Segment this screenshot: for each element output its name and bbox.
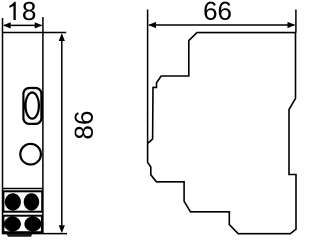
- front view outline: [3, 33, 43, 234]
- arrowhead 86 down: [59, 225, 65, 233]
- button recess rounded rect: [23, 88, 41, 124]
- terminal row 1 left screw: [5, 193, 21, 210]
- dimension line 66: [149, 24, 295, 26]
- extension line right of 18: [42, 17, 44, 33]
- indicator circle: [20, 144, 41, 165]
- arrowhead 66 right: [288, 22, 296, 28]
- arrowhead 18 right: [35, 22, 43, 28]
- terminal row 2 right screw: [24, 217, 41, 232]
- dimension line 86: [61, 35, 63, 232]
- dimension text 66: [204, 2, 230, 20]
- extension line left of 18: [2, 18, 4, 33]
- terminal row 2 box: [3, 216, 42, 233]
- side view profile: [148, 33, 296, 234]
- din clip foot: [6, 234, 32, 237]
- arrowhead 66 left: [148, 22, 156, 28]
- arrowhead 86 up: [59, 33, 65, 41]
- arrowhead 18 left: [3, 22, 11, 28]
- bottom edge extension line: [43, 233, 67, 235]
- top edge extension line: [43, 32, 66, 34]
- dimension text 18: [9, 2, 35, 20]
- dimension text 86 (rotated): [75, 112, 93, 139]
- module cross line above terminals: [3, 188, 44, 190]
- dimension line 18: [4, 24, 41, 26]
- extension line right of 66: [295, 10, 297, 33]
- terminal row 2 left screw: [4, 217, 21, 232]
- extension line left of 66: [147, 10, 149, 144]
- button ellipse: [26, 93, 39, 119]
- terminal row 1 right screw: [24, 193, 40, 210]
- terminal row 1 box: [3, 191, 42, 211]
